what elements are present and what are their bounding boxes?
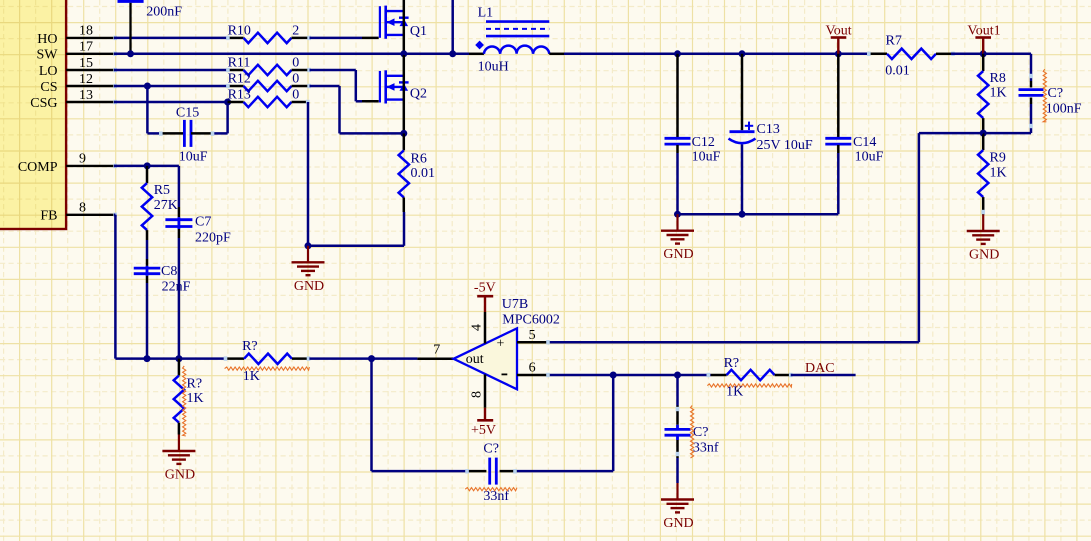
svg-text:CSG: CSG — [30, 96, 57, 111]
svg-text:Vout: Vout — [825, 23, 851, 38]
svg-text:27K: 27K — [154, 198, 178, 213]
svg-text:17: 17 — [79, 40, 93, 55]
svg-text:1K: 1K — [726, 384, 743, 399]
IC pin 13 (CSG) — [30, 88, 117, 111]
svg-text:0.01: 0.01 — [885, 63, 910, 78]
wire Vout1 to C? 100nF — [983, 54, 1031, 81]
pin 6 — [517, 361, 550, 378]
resistor R13 value 0 — [228, 87, 310, 107]
svg-text:SW: SW — [37, 48, 59, 63]
svg-text:10uF: 10uF — [692, 149, 721, 164]
wire R10 to Q1 gate — [310, 37, 379, 40]
transistor Q2 — [380, 70, 427, 103]
ground GND under R? — [162, 435, 195, 483]
resistor R? 1K DAC — [707, 356, 793, 400]
resistor R10 value 2 — [226, 24, 311, 44]
svg-text:4: 4 — [470, 324, 485, 331]
junction DAC filter — [674, 372, 681, 379]
wire L1 to C12/C13/C14/Vout — [678, 53, 870, 56]
svg-text:COMP: COMP — [18, 160, 58, 175]
svg-text:22nF: 22nF — [162, 280, 191, 295]
wire vertical to top at x=452 — [451, 0, 454, 54]
svg-text:C12: C12 — [692, 135, 715, 150]
svg-text:+5V: +5V — [471, 423, 496, 438]
svg-text:0.01: 0.01 — [411, 166, 436, 181]
wire CSG pin13 to R13 — [114, 101, 228, 104]
svg-text:Q2: Q2 — [410, 87, 427, 102]
IC pin 8 (FB) — [40, 201, 117, 224]
svg-text:100nF: 100nF — [1046, 102, 1082, 117]
svg-text:10uF: 10uF — [855, 149, 884, 164]
ground GND output caps — [661, 214, 694, 262]
svg-text:Q1: Q1 — [410, 24, 427, 39]
label 200nF — [146, 5, 182, 20]
svg-text:GND: GND — [294, 279, 324, 294]
pin 4 — [470, 312, 486, 344]
svg-text:C?: C? — [483, 442, 499, 457]
op-amp U7B MPC6002 — [454, 297, 560, 389]
svg-text:R9: R9 — [990, 151, 1006, 166]
capacitor C14 10uF — [825, 54, 883, 214]
wire pin6 to DAC — [550, 374, 711, 377]
svg-text:-5V: -5V — [474, 281, 496, 296]
wire pin5 to R8/R9 node — [550, 341, 919, 344]
capacitor C12 10uF — [665, 54, 721, 214]
pin 5 — [517, 328, 550, 344]
svg-text:1K: 1K — [243, 369, 260, 384]
svg-text:FB: FB — [40, 209, 57, 224]
svg-text:8: 8 — [470, 391, 485, 398]
svg-text:R?: R? — [724, 356, 740, 371]
wire output cap ground rail — [678, 213, 839, 216]
resistor R5 27K — [142, 166, 178, 240]
svg-text:1K: 1K — [187, 391, 204, 406]
svg-text:U7B: U7B — [502, 297, 528, 312]
svg-text:LO: LO — [39, 64, 58, 79]
wire 200nF cap to SW — [129, 3, 131, 54]
wire R12 to Q2 source — [310, 86, 404, 133]
wire CS pin12 to R12 — [114, 85, 228, 88]
svg-text:10uF: 10uF — [179, 150, 208, 165]
junction C7 bottom / R? top — [175, 355, 182, 362]
svg-text:0: 0 — [292, 55, 299, 70]
svg-text:R6: R6 — [411, 151, 427, 166]
svg-text:R8: R8 — [990, 71, 1006, 86]
wire COMP pin9 — [114, 165, 179, 168]
ground GND shunt — [292, 246, 325, 294]
wire Q2 drain-source column — [403, 54, 406, 134]
svg-text:12: 12 — [79, 72, 93, 87]
svg-text:L1: L1 — [478, 5, 494, 20]
power port Vout — [825, 23, 851, 53]
junction COMP/R5 — [144, 162, 151, 169]
power port Vout1 — [967, 23, 1000, 53]
svg-text:R11: R11 — [228, 55, 251, 70]
capacitor C8 22nF — [134, 240, 191, 359]
wire R? to DAC — [791, 374, 856, 377]
svg-text:GND: GND — [663, 247, 693, 262]
pin 7 label — [433, 343, 440, 358]
svg-text:out: out — [466, 352, 484, 367]
resistor R6 0.01 — [399, 133, 435, 212]
wire R8/R9 node to op-amp pin5 riser — [919, 133, 983, 342]
capacitor C? 33nf feedback — [372, 359, 614, 504]
svg-text:C13: C13 — [757, 122, 780, 137]
svg-text:13: 13 — [79, 88, 93, 103]
junction shunt ground — [305, 242, 312, 249]
svg-text:1K: 1K — [990, 85, 1007, 100]
net label DAC — [805, 361, 835, 376]
junction C8 bottom — [144, 355, 151, 362]
capacitor C? 200nF plate — [118, 0, 144, 3]
junction C14/Vout — [835, 50, 842, 57]
svg-text:R7: R7 — [886, 33, 902, 48]
junction feedback/pin6 — [610, 372, 617, 379]
junction CS/C15 — [144, 83, 151, 90]
svg-text:8: 8 — [79, 201, 86, 216]
power -5V — [474, 281, 496, 313]
ground GND under R9 — [967, 215, 1000, 263]
svg-text:15: 15 — [79, 56, 93, 71]
svg-text:+: + — [497, 336, 505, 351]
wire FB pin8 down — [114, 215, 115, 359]
IC pin 18 (HO) — [37, 24, 117, 47]
svg-text:R10: R10 — [228, 24, 251, 39]
wire SW pin17 to Q1/Q2 — [114, 53, 404, 56]
resistor R? 1K feedback — [224, 339, 311, 384]
svg-text:33nf: 33nf — [693, 441, 719, 456]
svg-text:CS: CS — [40, 80, 57, 95]
svg-text:GND: GND — [165, 468, 195, 483]
junction SW x=452 — [449, 50, 456, 57]
junction SW/200nF — [127, 50, 134, 57]
power +5V — [471, 408, 496, 438]
ground GND DAC filter — [661, 483, 694, 531]
node Q2 source / R6 — [400, 130, 407, 137]
wire R? to op-amp pin7 — [309, 357, 453, 360]
svg-text:200nF: 200nF — [146, 5, 182, 20]
capacitor C7 220pF — [165, 166, 231, 359]
svg-text:5: 5 — [529, 328, 536, 343]
resistor R? 1K to ground — [174, 359, 204, 436]
svg-text:33nf: 33nf — [483, 489, 509, 504]
junction C13 bottom — [739, 211, 746, 218]
svg-text:0: 0 — [292, 71, 299, 86]
junction CSG/C15 — [224, 99, 231, 106]
junction Vout1/R8 — [980, 50, 987, 57]
svg-text:18: 18 — [79, 24, 93, 39]
wire R11 to Q2 gate — [310, 70, 379, 101]
IC pin 9 (COMP) — [18, 152, 117, 175]
svg-text:GND: GND — [969, 248, 999, 263]
junction C12 top — [674, 50, 681, 57]
capacitor C15 10uF — [147, 86, 227, 165]
svg-text:25V 10uF: 25V 10uF — [757, 138, 813, 153]
junction R8/R9/C? — [980, 130, 987, 137]
junction C13 top — [739, 50, 746, 57]
transistor Q1 — [380, 6, 427, 39]
wire L1 right pin — [549, 53, 677, 56]
svg-text:R?: R? — [242, 339, 258, 354]
svg-text:C8: C8 — [161, 264, 177, 279]
svg-text:R12: R12 — [228, 71, 251, 86]
junction op-amp feedback node — [368, 355, 375, 362]
svg-text:C15: C15 — [176, 105, 199, 120]
svg-text:GND: GND — [663, 516, 693, 531]
IC pin 12 (CS) — [40, 72, 117, 95]
IC pin 17 (SW) — [37, 40, 118, 63]
svg-text:C?: C? — [693, 425, 709, 440]
svg-text:7: 7 — [433, 343, 440, 358]
wire ground to R6 bottom — [308, 212, 404, 246]
svg-text:C14: C14 — [853, 135, 876, 150]
svg-text:R?: R? — [187, 377, 203, 392]
svg-text:0: 0 — [292, 87, 299, 102]
wire R13 down to ground — [307, 102, 310, 246]
node SW at Q1 source — [400, 50, 407, 57]
wire FB to op-amp rail — [115, 357, 225, 360]
svg-text:10uH: 10uH — [478, 60, 509, 75]
svg-text:MPC6002: MPC6002 — [502, 312, 560, 327]
wire Q1 drain-source column — [403, 0, 406, 54]
capacitor C? 100nF — [983, 69, 1081, 133]
wire HO pin18 to R10 — [114, 37, 228, 40]
capacitor C13 25V 10uF — [729, 54, 813, 214]
IC pin 15 (LO) — [39, 56, 117, 79]
svg-text:220pF: 220pF — [195, 231, 231, 246]
inductor L1 10uH — [475, 5, 549, 74]
svg-text:Vout1: Vout1 — [967, 23, 1000, 38]
svg-text:R5: R5 — [154, 183, 170, 198]
resistor R7 0.01 — [867, 33, 955, 78]
svg-text:1K: 1K — [990, 166, 1007, 181]
svg-text:C7: C7 — [195, 215, 211, 230]
resistor R9 1K — [978, 133, 1007, 214]
svg-text:HO: HO — [37, 32, 57, 47]
wire SW to L1 — [404, 53, 484, 56]
resistor R11 value 0 — [226, 55, 311, 75]
svg-text:6: 6 — [529, 361, 536, 376]
wire R7 to Vout1 — [951, 53, 983, 56]
svg-text:C?: C? — [1048, 86, 1064, 101]
svg-text:2: 2 — [292, 24, 299, 39]
svg-text:9: 9 — [79, 152, 86, 167]
pin 8 — [470, 374, 486, 407]
svg-text:R13: R13 — [228, 87, 251, 102]
junction C12 bottom — [674, 211, 681, 218]
wire LO pin15 to R11 — [114, 69, 228, 72]
resistor R12 value 0 — [226, 71, 311, 91]
capacitor C? 33nf DAC filter — [665, 375, 719, 483]
svg-text:DAC: DAC — [805, 361, 835, 376]
resistor R8 1K — [978, 54, 1007, 133]
